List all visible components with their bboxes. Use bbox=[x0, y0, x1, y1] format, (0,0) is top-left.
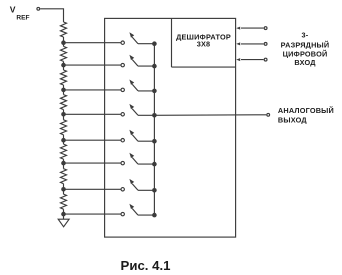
resistor 5 of ladder bbox=[61, 114, 67, 140]
node bus junction dot 8 bbox=[152, 213, 157, 218]
svg-text:3-: 3- bbox=[302, 31, 309, 40]
resistor 2 of ladder bbox=[61, 43, 67, 65]
label 3-bit digital input bbox=[281, 31, 330, 68]
ground bbox=[58, 219, 69, 227]
resistor 3 of ladder bbox=[61, 65, 67, 90]
switch S4 bbox=[121, 104, 154, 116]
svg-text:РАЗРЯДНЫЙ: РАЗРЯДНЫЙ bbox=[281, 41, 330, 50]
decoder U1 box dividers bbox=[172, 18, 236, 67]
svg-text:Рис. 4.1: Рис. 4.1 bbox=[121, 258, 171, 273]
node tap 3 junction dot bbox=[61, 88, 66, 93]
terminal VREF bbox=[37, 7, 40, 10]
terminal analog output bbox=[267, 113, 270, 116]
wire analog output bbox=[154, 114, 266, 117]
wire tap 7 to switch contact bbox=[64, 188, 121, 190]
node bus junction dot 3 bbox=[152, 89, 157, 94]
switch S3 bbox=[121, 80, 154, 92]
svg-text:REF: REF bbox=[16, 15, 29, 22]
switch S7 bbox=[121, 179, 154, 191]
switch S2 bbox=[121, 55, 154, 67]
DAC block outline bbox=[105, 18, 236, 237]
wire VREF to ladder top bbox=[40, 9, 63, 22]
switch S8 bbox=[121, 204, 154, 216]
wire tap 5 to switch contact bbox=[64, 139, 121, 141]
node bus junction dot 7 bbox=[152, 188, 157, 193]
node bus junction dot 1 bbox=[152, 41, 157, 46]
node bus junction dot 4 bbox=[152, 113, 157, 118]
label analog output bbox=[278, 106, 334, 124]
node bus junction dot 6 bbox=[152, 162, 157, 167]
resistor 4 of ladder bbox=[61, 90, 67, 114]
resistor 7 of ladder bbox=[61, 163, 67, 189]
resistor 8 of ladder bbox=[61, 189, 67, 214]
digital input bit 2 wire and arrow bbox=[236, 42, 267, 45]
wire ladder bottom to ground bbox=[63, 214, 65, 219]
resistor 1 of ladder bbox=[61, 22, 67, 43]
switch S5 bbox=[121, 130, 154, 142]
node bus junction dot 2 bbox=[152, 64, 157, 69]
node bus junction dot 5 bbox=[152, 139, 157, 144]
resistor 6 of ladder bbox=[61, 140, 67, 163]
digital input bit 3 wire and arrow bbox=[236, 58, 267, 61]
wire tap 3 to switch contact bbox=[64, 89, 121, 91]
node tap 5 junction dot bbox=[61, 138, 66, 143]
wire tap 8 to switch contact bbox=[64, 213, 121, 215]
svg-text:V: V bbox=[10, 5, 16, 15]
wire tap 6 to switch contact bbox=[64, 162, 121, 164]
switch S1 bbox=[121, 32, 154, 44]
node tap 4 junction dot bbox=[61, 112, 66, 117]
svg-text:АНАЛОГОВЫЙ: АНАЛОГОВЫЙ bbox=[278, 106, 334, 115]
svg-text:ВЫХОД: ВЫХОД bbox=[278, 115, 307, 124]
digital input bit 1 wire and arrow bbox=[236, 27, 267, 30]
node tap 7 junction dot bbox=[61, 187, 66, 192]
node tap 1 junction dot bbox=[61, 40, 66, 45]
switch S6 bbox=[121, 153, 154, 165]
wire output bus vertical bbox=[153, 44, 155, 215]
node tap 8 junction dot bbox=[61, 212, 66, 217]
wire tap 1 to switch contact bbox=[64, 42, 121, 44]
svg-text:ВХОД: ВХОД bbox=[294, 58, 316, 67]
svg-text:3X8: 3X8 bbox=[197, 40, 211, 49]
wire tap 2 to switch contact bbox=[64, 64, 121, 66]
node tap 6 junction dot bbox=[61, 161, 66, 166]
wire tap 4 to switch contact bbox=[64, 113, 121, 115]
node tap 2 junction dot bbox=[61, 63, 66, 68]
